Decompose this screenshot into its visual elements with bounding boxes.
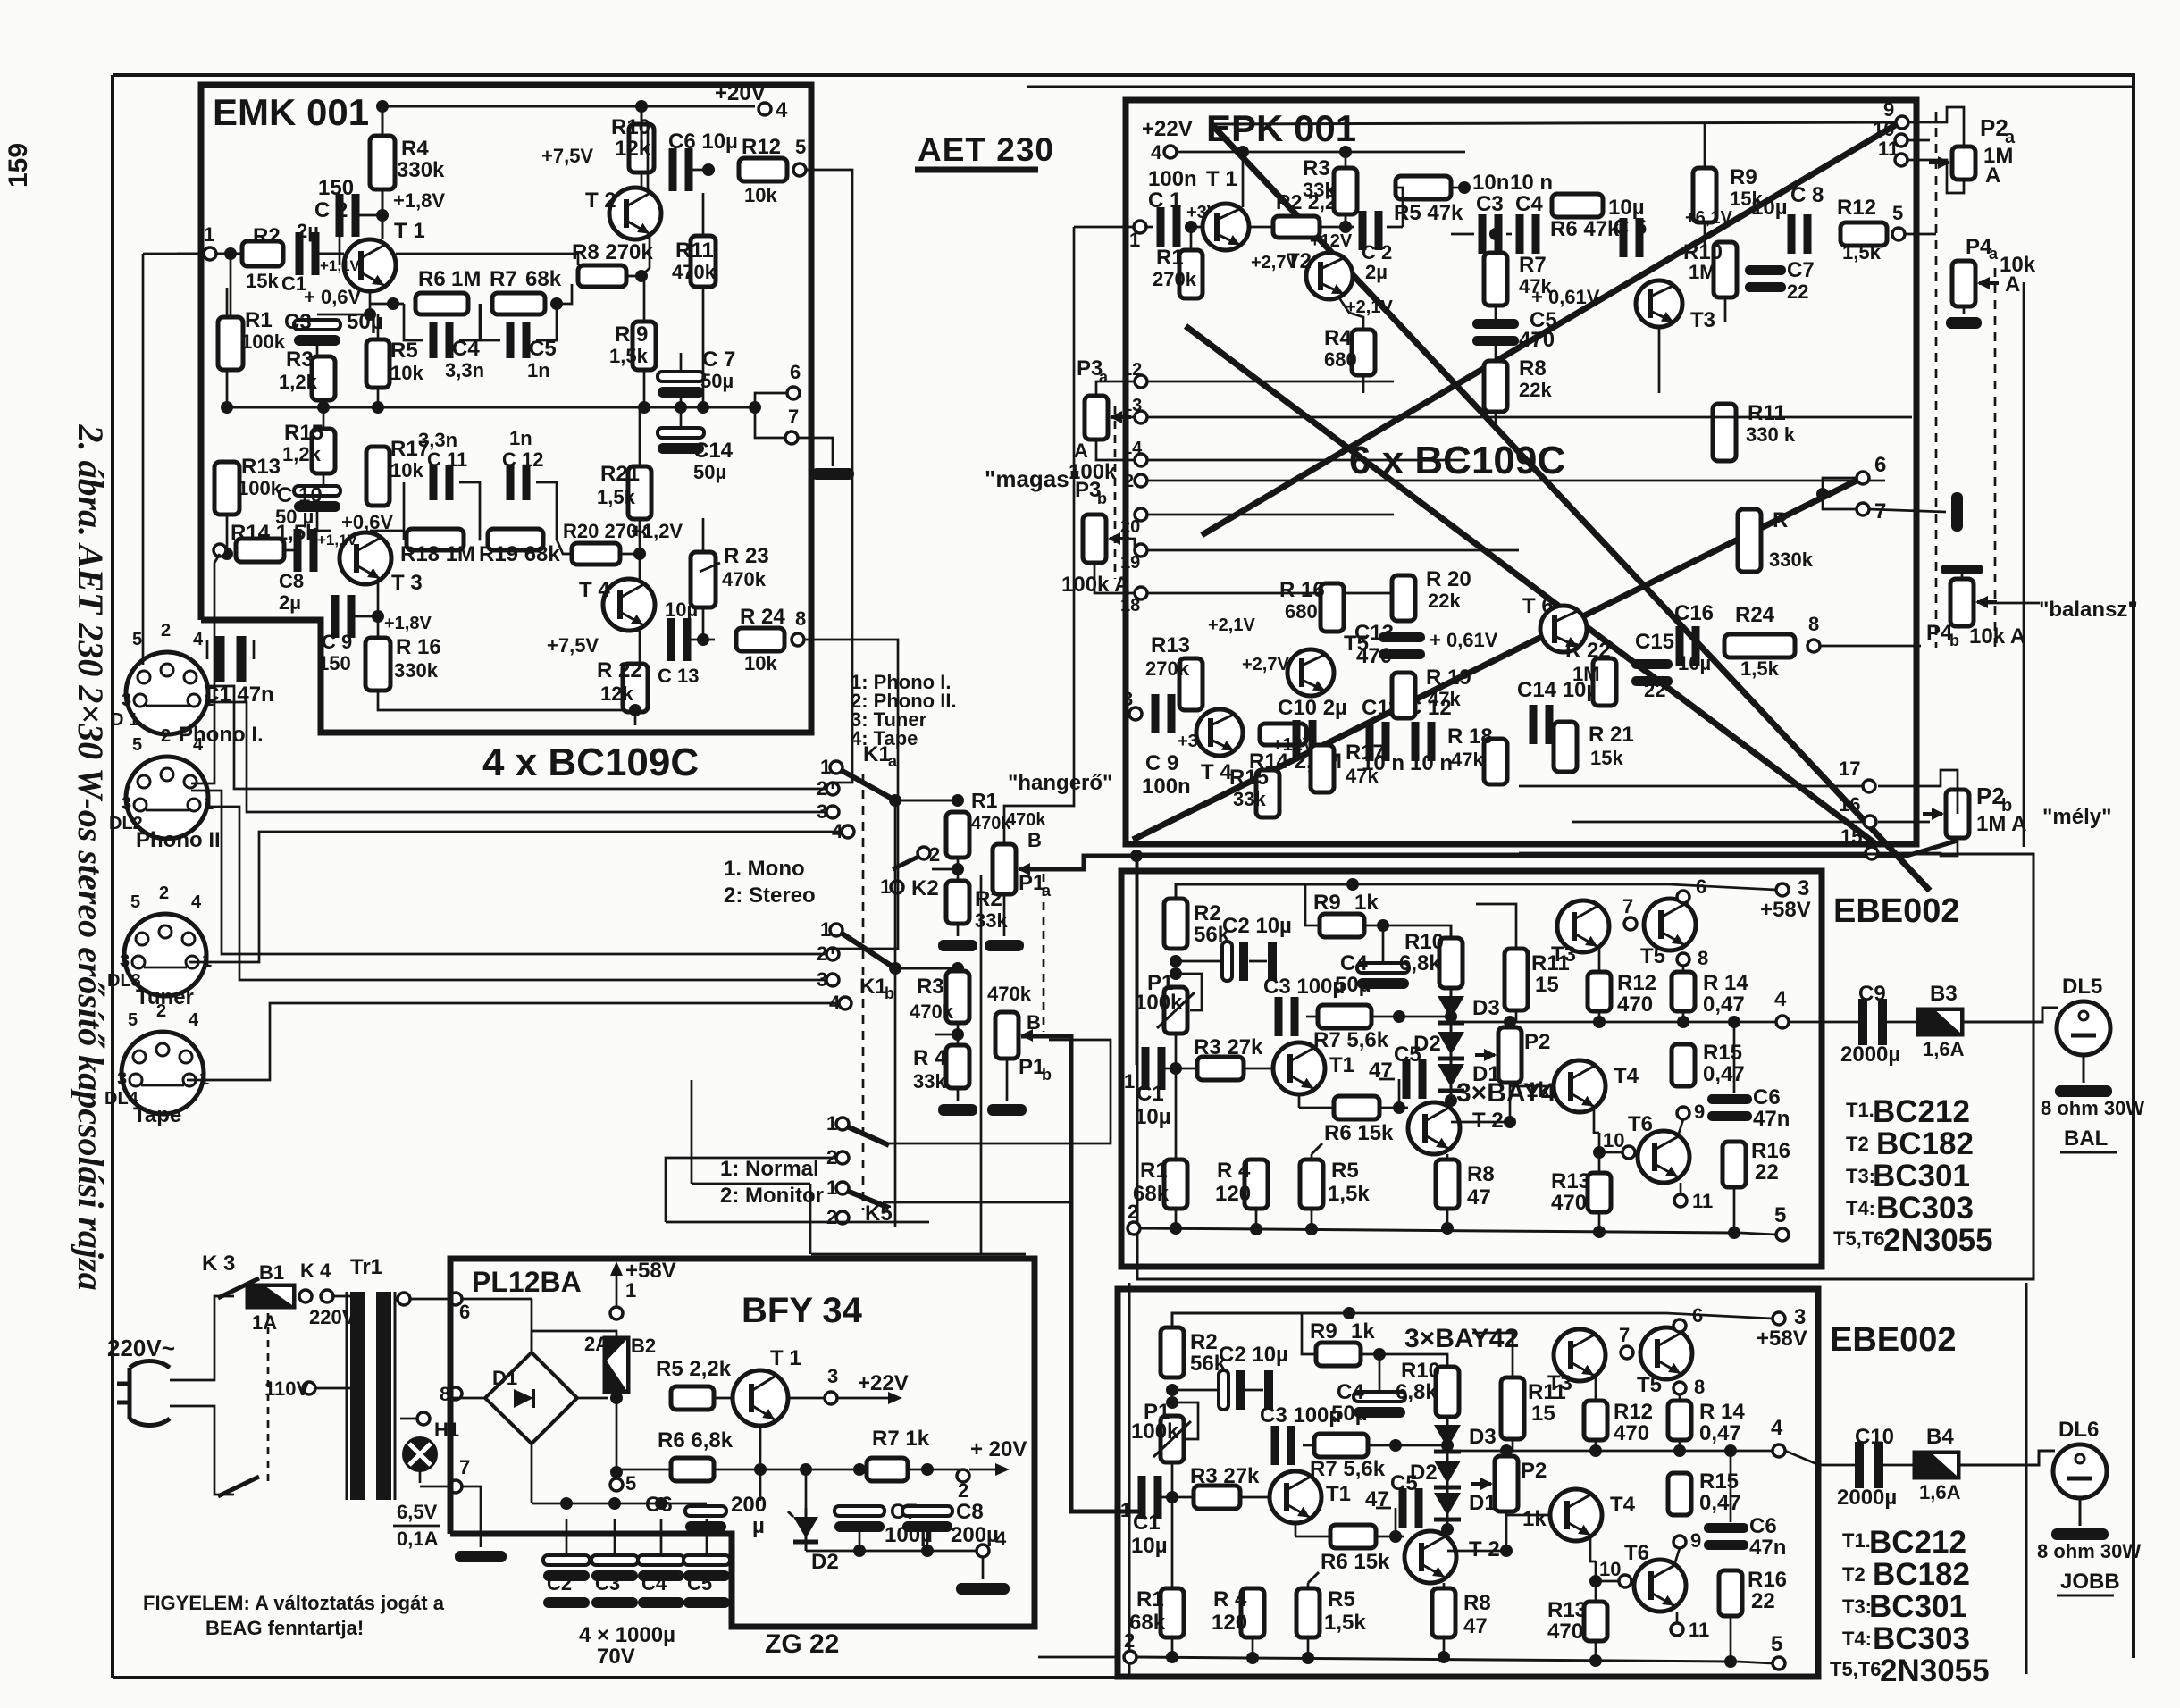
pot P3a	[1085, 396, 1108, 440]
svg-text:R 19: R 19	[1426, 666, 1471, 690]
wire C1 to R3b	[1161, 1496, 1194, 1499]
wire bottom bus ps	[806, 1550, 977, 1553]
wires R145 to busa	[1175, 1209, 1178, 1228]
capacitor C5 ps	[683, 1555, 730, 1565]
fuse B4	[1914, 1452, 1959, 1478]
resistor R15 ebeb	[1668, 1473, 1691, 1515]
svg-text:T4:: T4:	[1846, 1197, 1875, 1219]
svg-text:C 13: C 13	[658, 665, 699, 687]
svg-text:T 2: T 2	[1472, 1109, 1504, 1133]
svg-text:1,6A: 1,6A	[1919, 1481, 1961, 1503]
wire 6-7 bracket	[755, 393, 787, 407]
svg-text:1A: 1A	[252, 1311, 277, 1334]
svg-text:470: 470	[1356, 644, 1392, 668]
svg-text:1: 1	[1129, 229, 1140, 251]
wire diodes to T4b	[1447, 1550, 1506, 1553]
terminal 16	[1864, 816, 1876, 828]
resistor R1 ebea	[1164, 1160, 1187, 1209]
speaker grounda	[2083, 1055, 2085, 1083]
svg-text:0,47: 0,47	[1703, 1062, 1745, 1086]
svg-text:1: Normal: 1: Normal	[720, 1157, 819, 1181]
resistor R5	[366, 339, 390, 388]
svg-text:1M: 1M	[451, 267, 481, 291]
svg-text:BC301: BC301	[1869, 1589, 1966, 1624]
ground pin7	[798, 438, 833, 466]
svg-text:470: 470	[1614, 1421, 1649, 1445]
wire R20	[557, 540, 572, 554]
svg-text:B: B	[1027, 1011, 1041, 1034]
svg-text:DL5: DL5	[2062, 975, 2102, 999]
wire C4 to diodeb	[1379, 1354, 1447, 1410]
svg-text:C8: C8	[279, 570, 304, 592]
EPK001 box	[1126, 100, 1916, 844]
svg-text:100n: 100n	[1142, 774, 1191, 799]
svg-text:C3: C3	[1476, 192, 1504, 216]
svg-text:15: 15	[1531, 1402, 1555, 1426]
svg-text:8 ohm 30W: 8 ohm 30W	[2041, 1097, 2144, 1119]
connector DL1 Phono I	[126, 652, 208, 734]
svg-text:C4: C4	[1337, 1380, 1364, 1404]
terminal 4 epk	[1164, 146, 1177, 158]
svg-text:1k: 1k	[1351, 1319, 1375, 1344]
wire R13b	[1595, 1561, 1597, 1602]
capacitor C5 ebea	[1403, 1059, 1411, 1099]
resistor R14 ebea	[1672, 972, 1695, 1011]
svg-text:R 24: R 24	[740, 605, 785, 629]
wire R4 to T1	[381, 189, 384, 239]
resistor R22 epk	[1593, 658, 1616, 706]
svg-text:4: 4	[1771, 1416, 1783, 1440]
svg-text:2: 2	[958, 1479, 968, 1502]
wire 16	[1572, 821, 1864, 824]
svg-text:T1: T1	[1326, 1482, 1351, 1506]
capacitor C1 47n	[215, 636, 225, 682]
svg-text:R 16: R 16	[1279, 578, 1325, 602]
svg-text:BAL: BAL	[2064, 1126, 2108, 1151]
capacitor C1 2u	[296, 232, 304, 275]
wire R14	[284, 549, 295, 552]
svg-text:C14: C14	[693, 439, 734, 463]
svg-text:4 × 1000µ: 4 × 1000µ	[579, 1623, 675, 1647]
svg-text:R 4: R 4	[1213, 1587, 1247, 1612]
wire diode nodeb	[1441, 1523, 1454, 1536]
capacitor C10	[1855, 1442, 1864, 1488]
wire fuse to speakerb	[1959, 1451, 2055, 1465]
wire bridge top to B2	[532, 1331, 616, 1337]
svg-text:1: 1	[826, 1176, 837, 1199]
wire R6a	[1298, 1094, 1301, 1108]
resistor R8 22k epk	[1484, 361, 1507, 412]
svg-text:R12: R12	[1617, 971, 1656, 995]
svg-text:C 12: C 12	[502, 448, 543, 471]
diode D1 ebea	[1450, 1055, 1453, 1100]
wires P3 pots	[1096, 381, 1135, 396]
resistor R8 ebea	[1436, 1160, 1459, 1209]
svg-text:4: 4	[191, 892, 202, 912]
wire EMK pin5 down	[806, 170, 852, 789]
capacitor C7 50u	[658, 372, 704, 381]
svg-text:T 2: T 2	[585, 188, 616, 213]
wire balansz vert	[2023, 282, 2025, 847]
capacitor C13 epk	[1379, 632, 1425, 642]
svg-text:470: 470	[1551, 1191, 1587, 1215]
capacitor C2	[336, 194, 344, 237]
resistor R12 epk	[1840, 222, 1887, 246]
capacitor C4 epk	[1516, 214, 1524, 254]
wire R8b	[1443, 1583, 1446, 1588]
terminal 5 ebeb	[1773, 1657, 1785, 1670]
svg-text:3: 3	[117, 1069, 127, 1089]
svg-text:P1: P1	[1019, 1055, 1044, 1079]
pointer R23	[700, 563, 720, 572]
svg-text:1. Mono: 1. Mono	[724, 857, 805, 881]
output busa	[1451, 1021, 1776, 1024]
terminal 6 ebea	[1677, 891, 1689, 903]
svg-text:1,5k: 1,5k	[597, 486, 636, 508]
wire T6 emittera	[1680, 1183, 1682, 1194]
dashed gang right 1	[1935, 112, 1938, 648]
resistor R4 ebea	[1245, 1160, 1268, 1209]
svg-text:13: 13	[1122, 396, 1142, 415]
svg-text:10k: 10k	[744, 652, 777, 674]
svg-text:11: 11	[1878, 138, 1899, 160]
transistor T5 epk	[1287, 649, 1334, 696]
wire C9	[352, 615, 378, 618]
resistor R1	[218, 317, 243, 370]
svg-text:JOBB: JOBB	[2060, 1570, 2120, 1594]
resistor R7 47k epk	[1484, 253, 1507, 306]
wire T1 base to R8	[396, 254, 578, 265]
svg-text:10µ: 10µ	[1135, 1105, 1171, 1129]
capacitor C6 ebea	[1707, 1094, 1752, 1104]
svg-text:R5: R5	[1328, 1587, 1355, 1612]
wire sec top	[409, 1298, 450, 1301]
terminal 10 epk r	[1895, 134, 1907, 147]
svg-text:+1,1V: +1,1V	[317, 532, 358, 548]
terminal 20	[1135, 508, 1147, 521]
transistor T6 epk	[1540, 606, 1587, 652]
svg-text:14: 14	[1122, 439, 1143, 458]
svg-text:7: 7	[788, 406, 799, 428]
wire 15	[1519, 852, 1866, 855]
svg-text:R 14: R 14	[1703, 971, 1748, 995]
svg-text:10µ: 10µ	[1678, 652, 1711, 674]
middle EBE002 thin enclosure	[1137, 854, 2033, 1279]
svg-text:330k: 330k	[394, 659, 439, 682]
svg-text:R10: R10	[611, 115, 650, 139]
node T1 collector rail	[376, 100, 389, 113]
wire sec mid	[400, 1418, 418, 1420]
svg-text:+ 0,6V: + 0,6V	[304, 286, 362, 308]
terminal 3 ps	[825, 1392, 837, 1404]
resistor R6 ebea	[1334, 1096, 1379, 1119]
svg-text:T 2: T 2	[1469, 1537, 1500, 1561]
svg-text:15k: 15k	[246, 270, 279, 292]
svg-text:R2: R2	[1194, 901, 1221, 925]
capacitor C5 ebeb	[1399, 1488, 1407, 1528]
wire P1 bracketb	[1172, 1402, 1198, 1439]
wire R1 up	[1190, 227, 1193, 250]
svg-text:T6: T6	[1628, 1112, 1653, 1136]
svg-text:EMK 001: EMK 001	[213, 91, 369, 133]
svg-text:C 9: C 9	[1145, 751, 1178, 775]
svg-text:C1: C1	[1133, 1511, 1161, 1535]
capacitor C9	[1858, 999, 1867, 1045]
resistor R7 ps	[867, 1458, 908, 1481]
resistor R17	[366, 447, 390, 506]
wire R7 righta	[1371, 1016, 1451, 1018]
svg-text:6: 6	[790, 361, 801, 383]
terminal 8 ebeb	[1673, 1382, 1686, 1394]
svg-text:K1: K1	[863, 742, 891, 766]
transistor T2 ebeb	[1404, 1531, 1456, 1583]
svg-text:BC182: BC182	[1876, 1126, 1974, 1161]
zener D2 ps	[805, 1508, 808, 1551]
svg-text:12k: 12k	[600, 682, 633, 705]
wire R5 topb	[1307, 1583, 1310, 1588]
svg-text:22: 22	[1787, 280, 1808, 303]
svg-text:T3: T3	[1551, 942, 1576, 967]
wire diode nodea	[1445, 1094, 1457, 1107]
transistor T2	[609, 188, 661, 239]
svg-text:R18 1M: R18 1M	[400, 542, 475, 566]
svg-text:C4: C4	[1515, 192, 1543, 216]
svg-text:100k: 100k	[1131, 1419, 1179, 1444]
resistor R4 sel	[946, 1045, 969, 1088]
svg-text:PL12BA: PL12BA	[472, 1266, 582, 1298]
svg-text:100n: 100n	[1148, 167, 1197, 191]
wire T2 collector up	[647, 124, 650, 193]
parallel frame R7C5	[481, 304, 500, 340]
wire EMK pin8 down	[804, 640, 898, 954]
wire R5 arrowa	[1312, 1143, 1322, 1154]
resistor R3 ebeb	[1194, 1486, 1240, 1509]
transistor T5 ebeb	[1640, 1327, 1692, 1379]
svg-text:R 14: R 14	[1699, 1400, 1745, 1424]
svg-text:A: A	[2005, 272, 2020, 297]
svg-text:BC212: BC212	[1873, 1094, 1970, 1129]
wire 6 7 bracket epk	[1823, 478, 1857, 494]
capacitor C1 ebeb	[1138, 1476, 1146, 1519]
P3 gang dashed	[1114, 406, 1117, 579]
svg-text:47: 47	[1467, 1185, 1491, 1210]
svg-text:18: 18	[1120, 596, 1140, 615]
terminal 5 ebea	[1776, 1228, 1789, 1241]
svg-text:4: 4	[193, 630, 204, 649]
resistor R12 ebea	[1588, 972, 1611, 1011]
svg-text:T5: T5	[1640, 944, 1665, 968]
svg-text:R3: R3	[1303, 156, 1330, 180]
gang dashed link	[862, 774, 865, 1210]
capacitor C3 ps	[591, 1555, 638, 1565]
svg-text:T 4: T 4	[579, 578, 610, 602]
svg-text:DL6: DL6	[2058, 1418, 2099, 1442]
transistor T1 ebeb	[1270, 1471, 1321, 1523]
svg-text:+22V: +22V	[1142, 117, 1193, 141]
svg-text:BC301: BC301	[1873, 1159, 1970, 1193]
resistor R12	[739, 158, 787, 181]
wire C5 T2b	[1395, 1508, 1397, 1536]
svg-text:C2 10µ: C2 10µ	[1222, 914, 1292, 938]
svg-text:AET 230: AET 230	[918, 131, 1054, 168]
output busb	[1447, 1450, 1773, 1453]
resistor R12 ebeb	[1584, 1401, 1607, 1440]
wire T2 emitter to R4	[1338, 297, 1363, 330]
wire R15	[323, 407, 325, 429]
svg-text:10: 10	[1603, 1129, 1624, 1151]
svg-text:T2: T2	[1842, 1563, 1866, 1586]
diagonal cross line 1	[1212, 124, 1930, 891]
resistor R16 ebeb	[1719, 1570, 1742, 1616]
wire C5b	[1376, 1507, 1391, 1510]
svg-text:BC303: BC303	[1876, 1191, 1974, 1226]
svg-text:T4: T4	[1610, 1493, 1636, 1517]
svg-text:R 16: R 16	[396, 635, 441, 659]
svg-text:4: 4	[1774, 987, 1787, 1011]
connector DL2 Phono II	[126, 757, 208, 839]
wire R11b	[1472, 1333, 1513, 1377]
svg-text:1,5k: 1,5k	[1740, 657, 1780, 680]
capacitor C8 epk	[1788, 214, 1796, 254]
wire R6	[616, 1469, 671, 1471]
wire R1 topb	[1171, 1497, 1174, 1588]
svg-text:R10: R10	[1404, 930, 1444, 954]
capacitor C4 ebea	[1357, 963, 1409, 973]
svg-text:R12: R12	[742, 135, 781, 159]
svg-text:10n: 10n	[1472, 171, 1509, 195]
wire R16a	[1733, 1187, 1736, 1233]
terminal 5	[793, 163, 806, 176]
svg-text:17: 17	[1839, 758, 1860, 780]
capacitor C1 ebea	[1142, 1047, 1150, 1090]
capacitor C9 150	[331, 595, 340, 638]
svg-text:R 4: R 4	[1217, 1159, 1251, 1183]
svg-text:P2: P2	[1521, 1459, 1547, 1483]
resistor R15	[312, 429, 335, 473]
svg-text:19: 19	[1120, 553, 1140, 573]
transistor T2 epk	[1306, 253, 1353, 299]
EBE002 box a	[1121, 871, 1822, 1267]
svg-text:R6 15k: R6 15k	[1324, 1121, 1394, 1145]
svg-text:C 2: C 2	[314, 198, 348, 222]
connector DL3 Tuner	[124, 914, 206, 996]
svg-text:T 1: T 1	[1206, 167, 1237, 191]
svg-text:3: 3	[122, 691, 131, 710]
svg-text:R16: R16	[1751, 1139, 1790, 1163]
svg-text:K 3: K 3	[202, 1252, 235, 1276]
connector DL4 Tape	[122, 1032, 204, 1114]
diode D2 ebea	[1450, 1023, 1453, 1067]
capacitor C8 2u	[294, 529, 302, 572]
resistor R9 ebeb	[1316, 1343, 1361, 1366]
wire feed EBE002 pin1	[1130, 850, 1143, 862]
svg-text:2A: 2A	[584, 1333, 609, 1355]
resistor R14 ebeb	[1668, 1401, 1691, 1440]
svg-text:R13: R13	[1151, 633, 1190, 657]
svg-text:R1: R1	[1140, 1159, 1168, 1183]
svg-text:22k: 22k	[1428, 590, 1461, 612]
svg-text:D1: D1	[1472, 1062, 1500, 1086]
svg-text:+ 20V: + 20V	[970, 1437, 1027, 1461]
lamp H1	[404, 1438, 436, 1470]
svg-text:5: 5	[625, 1472, 636, 1494]
wire 7 internal	[462, 1486, 481, 1534]
resistor R21 epk	[1554, 722, 1577, 772]
svg-text:C3 100µ: C3 100µ	[1263, 975, 1345, 999]
svg-text:6: 6	[1696, 875, 1706, 898]
svg-text:1: 1	[820, 756, 831, 778]
+22V rail	[1177, 151, 1346, 154]
svg-text:+20V: +20V	[715, 81, 766, 105]
svg-text:22: 22	[1644, 679, 1665, 701]
svg-text:2: 2	[826, 1206, 837, 1228]
svg-text:5: 5	[1892, 202, 1903, 224]
transistor T3 ebea	[1557, 900, 1609, 952]
wire C5a	[1379, 1078, 1395, 1081]
rail righta	[1353, 883, 1583, 886]
terminal 11 epk r	[1895, 154, 1907, 166]
bridge rectifier D1	[485, 1352, 577, 1444]
svg-text:70V: 70V	[597, 1645, 635, 1669]
diode D3 ebea	[1450, 987, 1453, 1032]
svg-text:D 1: D 1	[111, 710, 138, 730]
+20V rail wire	[382, 106, 755, 136]
capacitor C13 10u	[667, 618, 675, 661]
svg-text:R6 6,8k: R6 6,8k	[658, 1428, 734, 1453]
svg-text:R15: R15	[1703, 1041, 1742, 1065]
svg-text:C1: C1	[281, 272, 306, 295]
resistor R18 1M	[407, 529, 464, 550]
wire C14	[680, 407, 683, 428]
svg-text:C6: C6	[1749, 1514, 1777, 1538]
internal wires epk top	[1147, 226, 1153, 229]
svg-text:3: 3	[1122, 688, 1133, 710]
resistor R20 270k	[572, 543, 620, 565]
svg-text:C2 10µ: C2 10µ	[1219, 1343, 1288, 1367]
wire switch common vertical	[894, 800, 897, 1227]
resistor R24 epk	[1724, 634, 1795, 657]
svg-text:6,5V: 6,5V	[397, 1501, 438, 1523]
svg-text:R11: R11	[675, 239, 714, 263]
svg-text:P1: P1	[1019, 871, 1044, 895]
svg-text:6,8k: 6,8k	[1399, 951, 1441, 975]
transistor T6 ebeb	[1634, 1560, 1686, 1612]
ground R2	[957, 924, 960, 936]
long wire 13	[1147, 416, 1912, 419]
wire T1 baseb	[1240, 1496, 1270, 1499]
svg-text:R5 47k: R5 47k	[1394, 201, 1463, 225]
svg-text:22: 22	[1751, 1589, 1775, 1613]
wire T4 basea	[1510, 1085, 1554, 1088]
wire T3 T5 emb	[1595, 1376, 1597, 1401]
svg-text:1k: 1k	[1526, 1078, 1550, 1102]
svg-text:6: 6	[1692, 1304, 1703, 1327]
svg-text:1: 1	[204, 691, 214, 710]
svg-text:220V~: 220V~	[107, 1335, 175, 1361]
terminal 3 epk	[1129, 707, 1142, 720]
svg-text:T 6: T 6	[1522, 594, 1554, 618]
svg-text:1: 1	[880, 875, 891, 898]
svg-text:T 3: T 3	[391, 571, 423, 595]
svg-text:b: b	[1042, 1066, 1052, 1084]
svg-text:470k: 470k	[987, 983, 1032, 1005]
EMK001 box	[201, 85, 811, 733]
terminal 11 ebeb	[1671, 1623, 1683, 1636]
pot P3b	[1083, 515, 1106, 563]
terminal 4	[759, 103, 771, 115]
resistor R2	[242, 241, 283, 266]
capacitor C6 10u	[669, 148, 677, 191]
